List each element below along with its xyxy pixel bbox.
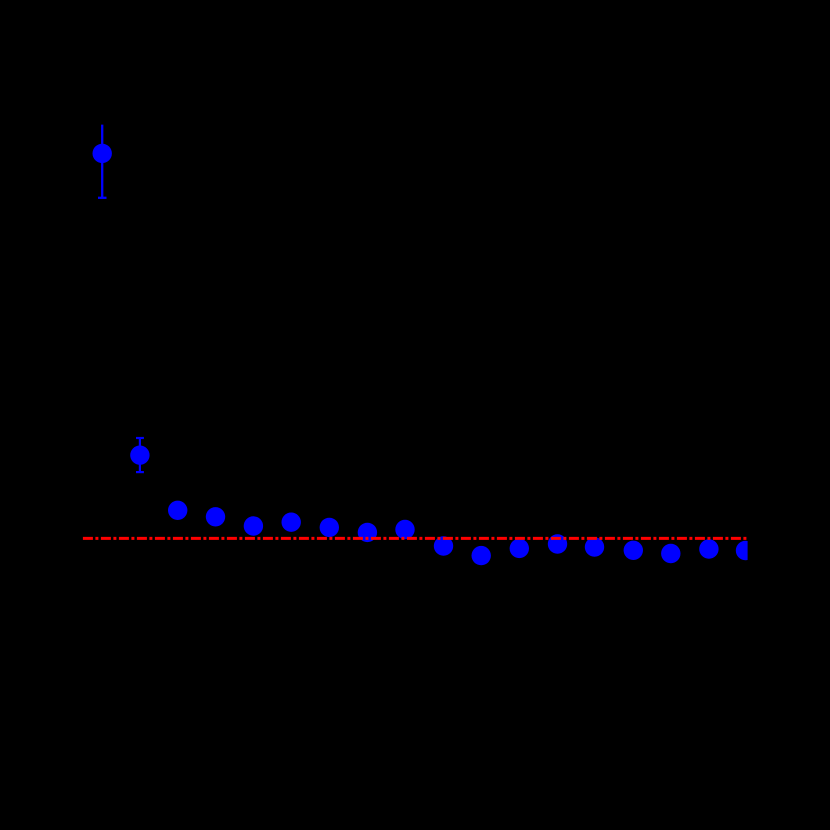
error bar lag1 xyxy=(98,125,107,198)
point lag14 xyxy=(585,537,604,556)
point lag13 xyxy=(548,534,567,553)
point lag16 xyxy=(661,544,680,563)
error bar lag2 xyxy=(136,438,144,472)
point lag9 xyxy=(395,520,414,539)
point lag8 xyxy=(358,523,377,542)
point lag4 xyxy=(206,507,225,526)
point lag6 xyxy=(282,513,301,532)
reference line (red dotdash) xyxy=(83,537,747,540)
point lag3 xyxy=(168,501,187,520)
point lag1 xyxy=(93,144,112,163)
point lag15 xyxy=(624,541,643,560)
point lag18 (clipped at plot edge) xyxy=(736,541,755,560)
point lag12 xyxy=(510,539,529,558)
point lag11 xyxy=(472,546,491,565)
point lag10 xyxy=(434,536,453,555)
point lag17 xyxy=(699,539,718,558)
point lag5 xyxy=(244,516,263,535)
point lag7 xyxy=(320,518,339,537)
point lag2 xyxy=(130,446,149,465)
